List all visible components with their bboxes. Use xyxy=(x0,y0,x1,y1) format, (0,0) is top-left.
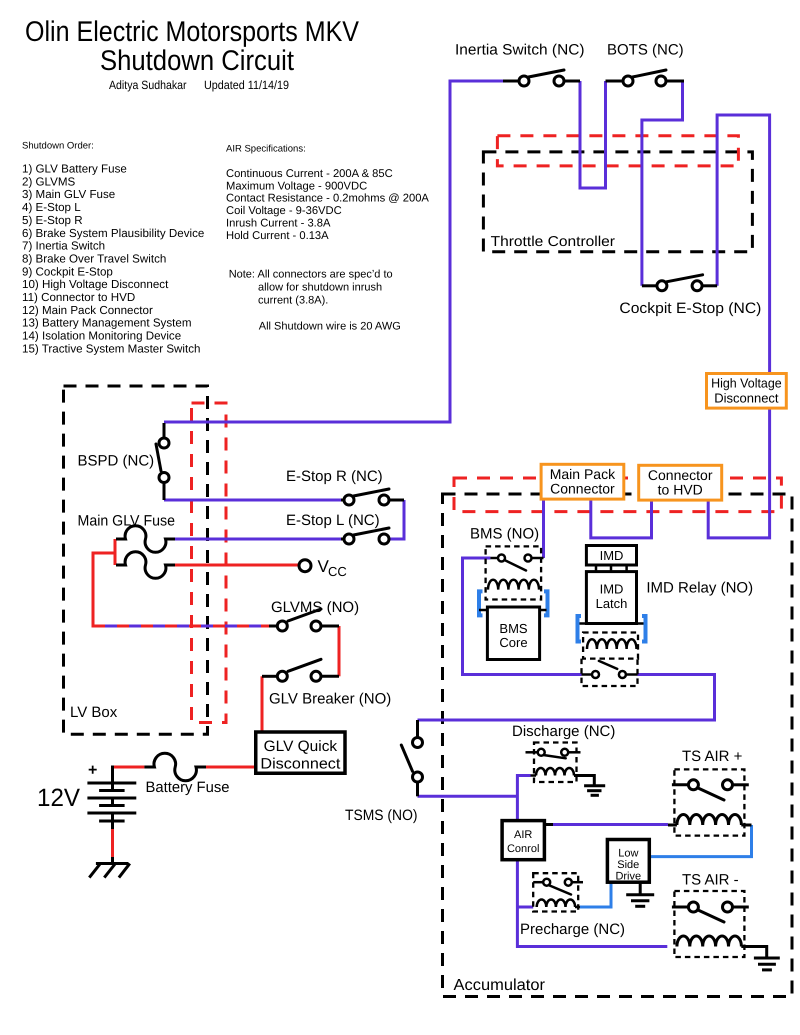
svg-text:current (3.8A).: current (3.8A). xyxy=(258,295,328,307)
svg-text:2) GLVMS: 2) GLVMS xyxy=(22,175,76,188)
svg-text:1) GLV Battery Fuse: 1) GLV Battery Fuse xyxy=(22,163,127,176)
svg-text:Cockpit E-Stop (NC): Cockpit E-Stop (NC) xyxy=(619,300,761,317)
svg-text:Shutdown Circuit: Shutdown Circuit xyxy=(100,45,294,77)
svg-text:9) Cockpit E-Stop: 9) Cockpit E-Stop xyxy=(22,265,113,278)
svg-text:E-Stop L (NC): E-Stop L (NC) xyxy=(286,512,380,529)
svg-text:Precharge (NC): Precharge (NC) xyxy=(520,921,625,938)
svg-text:IMD: IMD xyxy=(600,548,624,563)
svg-text:Maximum Voltage - 900VDC: Maximum Voltage - 900VDC xyxy=(226,180,367,192)
svg-text:TS AIR -: TS AIR - xyxy=(682,872,739,889)
svg-text:12V: 12V xyxy=(37,784,80,812)
svg-text:Core: Core xyxy=(499,635,527,650)
svg-text:BMS (NO): BMS (NO) xyxy=(470,526,539,543)
svg-text:AIR: AIR xyxy=(514,829,532,841)
svg-text:IMD: IMD xyxy=(600,582,624,597)
svg-text:GLV Quick: GLV Quick xyxy=(264,738,338,755)
svg-text:7) Inertia Switch: 7) Inertia Switch xyxy=(22,240,105,253)
svg-text:+: + xyxy=(88,762,97,779)
svg-text:Updated 11/14/19: Updated 11/14/19 xyxy=(204,78,289,92)
svg-text:All Shutdown wire is 20 AWG: All Shutdown wire is 20 AWG xyxy=(259,321,401,333)
svg-text:BOTS (NC): BOTS (NC) xyxy=(607,42,684,59)
svg-text:12) Main Pack Connector: 12) Main Pack Connector xyxy=(22,304,153,317)
svg-text:GLV Breaker (NO): GLV Breaker (NO) xyxy=(269,691,391,708)
svg-text:Contact Resistance - 0.2mohms: Contact Resistance - 0.2mohms @ 200A xyxy=(226,193,429,205)
svg-text:6) Brake System Plausibility D: 6) Brake System Plausibility Device xyxy=(22,227,204,240)
svg-text:Olin Electric Motorsports MKV: Olin Electric Motorsports MKV xyxy=(25,16,359,48)
svg-text:Low: Low xyxy=(618,848,638,860)
svg-text:Drive: Drive xyxy=(615,871,641,883)
svg-text:4) E-Stop L: 4) E-Stop L xyxy=(22,201,81,214)
svg-text:15) Tractive System Master Swi: 15) Tractive System Master Switch xyxy=(22,342,200,355)
svg-text:TS AIR +: TS AIR + xyxy=(682,748,743,765)
svg-text:IMD Relay (NO): IMD Relay (NO) xyxy=(646,580,753,597)
svg-text:Note:: Note: xyxy=(229,269,255,281)
svg-text:Battery Fuse: Battery Fuse xyxy=(146,779,230,796)
svg-text:GLVMS (NO): GLVMS (NO) xyxy=(271,599,359,616)
svg-text:CC: CC xyxy=(328,564,347,579)
svg-text:Conrol: Conrol xyxy=(507,843,539,855)
svg-text:TSMS (NO): TSMS (NO) xyxy=(345,807,418,824)
svg-text:14) Isolation Monitoring Devic: 14) Isolation Monitoring Device xyxy=(22,330,181,343)
svg-text:Shutdown Order:: Shutdown Order: xyxy=(22,141,94,152)
svg-text:11) Connector to HVD: 11) Connector to HVD xyxy=(22,291,135,304)
svg-text:8) Brake Over Travel Switch: 8) Brake Over Travel Switch xyxy=(22,252,166,265)
svg-text:Aditya Sudhakar: Aditya Sudhakar xyxy=(109,78,187,92)
svg-text:3) Main GLV Fuse: 3) Main GLV Fuse xyxy=(22,188,115,201)
svg-text:5) E-Stop R: 5) E-Stop R xyxy=(22,214,83,227)
svg-text:Disconnect: Disconnect xyxy=(714,391,779,406)
svg-text:Accumulator: Accumulator xyxy=(454,977,546,994)
svg-text:Throttle Controller: Throttle Controller xyxy=(491,234,616,250)
svg-text:Inrush Current - 3.8A: Inrush Current - 3.8A xyxy=(226,217,331,229)
svg-text:Coil Voltage - 9-36VDC: Coil Voltage - 9-36VDC xyxy=(226,205,342,217)
svg-text:to HVD: to HVD xyxy=(658,481,703,497)
svg-text:LV Box: LV Box xyxy=(70,704,118,721)
svg-text:Inertia Switch (NC): Inertia Switch (NC) xyxy=(455,42,585,59)
svg-text:Connector: Connector xyxy=(550,480,615,496)
svg-text:Continuous Current - 200A & 85: Continuous Current - 200A & 85C xyxy=(226,168,393,180)
svg-text:Latch: Latch xyxy=(596,596,628,611)
svg-text:AIR Specifications:: AIR Specifications: xyxy=(226,144,306,155)
svg-text:10) High Voltage Disconnect: 10) High Voltage Disconnect xyxy=(22,278,169,291)
svg-text:Disconnect: Disconnect xyxy=(260,756,341,773)
svg-text:Hold Current - 0.13A: Hold Current - 0.13A xyxy=(226,230,329,242)
svg-text:High Voltage: High Voltage xyxy=(711,376,782,391)
svg-text:E-Stop R (NC): E-Stop R (NC) xyxy=(286,468,383,485)
svg-text:BMS: BMS xyxy=(499,621,528,636)
svg-text:All connectors are spec’d to: All connectors are spec’d to xyxy=(258,269,393,281)
svg-text:allow for shutdown inrush: allow for shutdown inrush xyxy=(258,282,382,294)
svg-text:BSPD (NC): BSPD (NC) xyxy=(78,453,155,470)
svg-text:Side: Side xyxy=(617,859,639,871)
svg-text:13) Battery Management System: 13) Battery Management System xyxy=(22,317,191,330)
svg-text:Discharge (NC): Discharge (NC) xyxy=(512,723,615,740)
svg-text:Main GLV Fuse: Main GLV Fuse xyxy=(78,513,176,530)
